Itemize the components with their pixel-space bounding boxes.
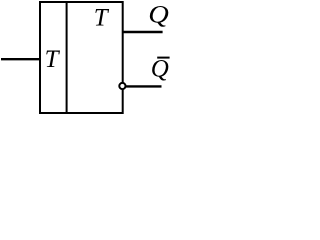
svg-text:T: T bbox=[94, 5, 110, 32]
svg-text:Q: Q bbox=[151, 56, 169, 83]
svg-text:T: T bbox=[45, 46, 61, 73]
svg-text:Q: Q bbox=[148, 0, 169, 28]
